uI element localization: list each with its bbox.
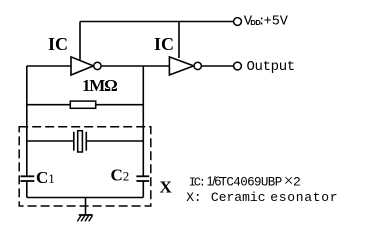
terminal Output xyxy=(234,62,242,70)
ground xyxy=(77,215,92,221)
svg-text:TC4069UBP: TC4069UBP xyxy=(220,175,282,189)
terminal VDD xyxy=(234,18,242,26)
dashed box (ceramic resonator unit X) xyxy=(19,127,151,206)
wire U1 input xyxy=(27,65,71,67)
label VDD:+5V xyxy=(244,14,289,30)
svg-text:2: 2 xyxy=(293,174,301,189)
wire resistor left lead xyxy=(27,104,71,106)
wire VDD to IC1 power pin xyxy=(79,22,81,62)
wire left feedback vertical (U1 input node) xyxy=(26,66,28,176)
svg-text:X: X xyxy=(160,178,173,197)
svg-text:Ceramic: Ceramic xyxy=(211,190,266,205)
wire U1 output to U2 input xyxy=(101,65,169,67)
svg-text:IC: IC xyxy=(48,34,68,54)
capacitor C1 xyxy=(21,176,35,181)
wire resonator left lead xyxy=(27,140,74,142)
wire resistor right lead xyxy=(96,104,144,106)
svg-text:esonator: esonator xyxy=(270,190,338,205)
resistor R1 1MΩ xyxy=(70,101,95,108)
svg-text:1MΩ: 1MΩ xyxy=(82,76,117,95)
wire U2 output xyxy=(202,65,234,67)
wire C1 to ground bus xyxy=(26,181,28,198)
wire resonator right lead xyxy=(86,140,143,142)
wire ground bus xyxy=(27,197,144,199)
wire VDD rail xyxy=(80,21,233,23)
wire VDD to IC2 power pin xyxy=(178,22,180,59)
capacitor C2 xyxy=(136,176,149,181)
svg-text:IC:: IC: xyxy=(189,175,204,189)
svg-text:C2: C2 xyxy=(111,165,130,184)
svg-text:×: × xyxy=(284,171,294,190)
wire right feedback vertical (U1 output node) xyxy=(142,66,144,176)
inverter U2 (1/6 TC4069UBP) xyxy=(169,57,201,75)
svg-text:+5V: +5V xyxy=(264,15,289,30)
wire ground stub xyxy=(85,198,87,216)
svg-text:Output: Output xyxy=(247,59,295,75)
inverter U1 (1/6 TC4069UBP) xyxy=(71,57,101,75)
wire C2 to ground bus xyxy=(142,181,144,198)
svg-text:X:: X: xyxy=(186,190,201,205)
ceramic resonator X element xyxy=(74,131,87,152)
svg-text:C1: C1 xyxy=(36,168,55,187)
svg-text:IC: IC xyxy=(154,34,174,54)
note IC: 1/6TC4069UBP×2 xyxy=(189,171,301,190)
note X: Ceramic esonator xyxy=(186,190,338,205)
